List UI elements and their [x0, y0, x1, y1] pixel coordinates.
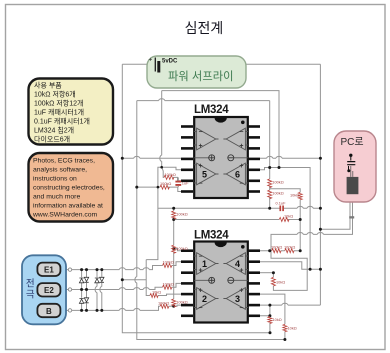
capacitor C2 0.1uF — [276, 200, 287, 211]
wire row2 to pin U1-L7 — [137, 187, 181, 191]
junction (269.7,208.3) — [268, 207, 271, 210]
wire hop 22 — [282, 303, 288, 305]
U2 amp 4 triangle — [226, 253, 245, 275]
resistor R13 100k R1a — [272, 249, 281, 253]
junction (173.7,248.6) — [172, 247, 175, 250]
wire hop 18 — [307, 206, 313, 208]
wire row1 to pin U1-L6 — [162, 167, 181, 181]
wire E2 line — [60, 283, 181, 289]
op-amp U1 LM324 upper — [181, 104, 260, 198]
junction (269.7,167.5) — [268, 166, 271, 169]
pin 6 — [181, 180, 193, 183]
wire power rail right — [260, 157, 320, 159]
svg-text:100kΩ: 100kΩ — [165, 172, 176, 177]
resistor R17 10k R7 — [268, 316, 272, 323]
svg-text:LM324: LM324 — [194, 230, 229, 242]
pin 11 — [248, 158, 260, 161]
wire B line — [60, 305, 181, 310]
wire y219.5 — [174, 219, 301, 221]
junction (122.3,158.3) — [121, 157, 124, 160]
diode D4 — [84, 298, 88, 303]
wire hop 11 — [135, 277, 137, 283]
wire right bus VR1 — [319, 64, 321, 305]
wire 2x100k pin U2-R1 — [260, 250, 300, 252]
wire hop 2 — [134, 268, 140, 270]
svg-text:극: 극 — [26, 290, 35, 301]
wire R5 rail and VR5 — [260, 168, 310, 270]
wire pin U1-L5 feed — [162, 167, 181, 170]
PC box — [334, 131, 376, 202]
svg-text:+: + — [199, 143, 203, 150]
wire 10k branch to x300.2 — [270, 189, 301, 251]
svg-text:E2: E2 — [44, 286, 54, 295]
pin 12 — [248, 169, 260, 172]
svg-text:4: 4 — [235, 259, 240, 269]
wire x146.2 to 10k pin U2-L5 — [146, 260, 181, 296]
pin 1 — [181, 249, 193, 252]
junction (320.4,208.3) — [319, 207, 322, 210]
U1 body — [194, 117, 248, 198]
pin 6 — [181, 304, 193, 307]
pin 10 — [248, 147, 260, 150]
svg-text:PC로: PC로 — [341, 137, 364, 148]
svg-text:−: − — [239, 181, 243, 188]
electrode E2 — [37, 283, 60, 296]
svg-text:5: 5 — [202, 170, 207, 180]
junction (269.7,250.7) — [268, 249, 271, 252]
wire battery plus to right bus — [246, 63, 320, 65]
pin 14 — [248, 190, 260, 193]
U2 notch — [215, 243, 227, 248]
svg-text:10kΩ: 10kΩ — [273, 317, 282, 322]
wire hop 19 — [297, 232, 303, 234]
wire hop 21 — [317, 232, 323, 234]
U1 amp top-right triangle — [226, 128, 245, 150]
junction (269.9,315.8) — [268, 314, 271, 317]
wire cap wire y208.3 — [158, 207, 321, 209]
power supply box — [147, 56, 246, 88]
wire hop 5 — [134, 288, 140, 290]
svg-text:100kΩ: 100kΩ — [176, 212, 187, 217]
pin 8 — [248, 125, 260, 128]
junction (320.4,158.3) — [319, 157, 322, 160]
pin 12 — [248, 293, 260, 296]
svg-text:100kΩ: 100kΩ — [163, 260, 174, 265]
junction (310.1,269.2) — [309, 268, 312, 271]
diode D1 — [79, 278, 83, 283]
electrodes box — [22, 255, 66, 324]
wire E1 line — [60, 262, 181, 270]
wire diode col 2 — [86, 270, 88, 311]
svg-text:−: − — [199, 305, 203, 312]
svg-text:www.SWHarden.com: www.SWHarden.com — [32, 212, 98, 219]
junction (300.2,250.7) — [299, 249, 302, 252]
wire hop 13 — [134, 156, 140, 158]
info box — [29, 153, 114, 222]
pin 8 — [248, 249, 260, 252]
wire hop 15 — [267, 156, 273, 158]
wire pin U2-R3 — [260, 272, 273, 274]
U2 amp 3 triangle — [226, 288, 245, 310]
svg-text:3: 3 — [235, 294, 240, 304]
U1 pin1 dot — [241, 121, 245, 125]
pin 11 — [248, 282, 260, 285]
connector marker on PC wires — [349, 216, 354, 218]
resistor R6 10k y219.5 — [279, 218, 289, 222]
wire battery minus to left bus — [122, 63, 153, 65]
pin 9 — [248, 260, 260, 263]
svg-text:10kΩ: 10kΩ — [288, 326, 297, 331]
resistor R2 100k row2 — [160, 185, 169, 189]
svg-text:−: − — [199, 181, 203, 188]
junction (97,310.4) — [96, 309, 99, 312]
svg-text:1: 1 — [202, 259, 207, 269]
resistor R11 100k E2 — [163, 285, 172, 289]
electrode E1 — [37, 263, 60, 276]
junction (173.7,219.5) — [172, 218, 175, 221]
wire hop 3 — [143, 268, 149, 270]
electrode B — [37, 304, 60, 317]
pin 7 — [181, 314, 193, 317]
svg-text:0.1uF: 0.1uF — [276, 200, 287, 205]
diode D3 — [79, 299, 83, 304]
pin 10 — [248, 271, 260, 274]
diode D6 — [100, 277, 104, 282]
svg-text:5vDC: 5vDC — [162, 59, 178, 65]
pin 14 — [248, 314, 260, 317]
U2 amp 2 triangle — [197, 288, 216, 310]
junction (161.7,167.2) — [160, 166, 163, 169]
wire diode col 3 — [96, 270, 98, 311]
wire hop 16 — [276, 156, 282, 158]
resistor R8 100k chain mid — [172, 245, 176, 253]
svg-text:10kΩ: 10kΩ — [276, 280, 285, 285]
junction (273.4,272.7) — [272, 271, 275, 274]
wire R6-R7 link — [269, 305, 271, 316]
junction (86.5,289.5) — [85, 288, 88, 291]
wire branch x157.9 — [146, 167, 162, 259]
junction (284.9,339.5) — [283, 338, 286, 341]
wire feedback rect B — [137, 100, 270, 102]
svg-text:100kΩ: 100kΩ — [163, 281, 174, 286]
svg-text:1uF 캐패시터1개: 1uF 캐패시터1개 — [34, 108, 84, 117]
U1 amp 6 triangle — [226, 163, 245, 185]
svg-text:100kΩ: 100kΩ — [271, 245, 282, 250]
resistor labels — [152, 172, 299, 331]
parts list box — [29, 79, 114, 145]
resistor R5 10k vertical x300.2 — [298, 192, 302, 200]
wire hop 4 — [119, 288, 125, 290]
pin 2 — [181, 260, 193, 263]
pin 2 — [181, 136, 193, 139]
svg-text:100kΩ 저항12개: 100kΩ 저항12개 — [34, 99, 83, 108]
wire feedback rect A — [162, 91, 279, 168]
svg-text:and much more: and much more — [33, 194, 80, 201]
wire hop 10 — [100, 287, 102, 293]
resistor R16 10k E-L5 — [150, 294, 158, 298]
U1 amp top-left triangle — [197, 128, 216, 150]
wire hop 12 — [160, 155, 162, 161]
pin 3 — [181, 271, 193, 274]
svg-text:100kΩ: 100kΩ — [272, 191, 283, 196]
resistor R12 100k B — [160, 304, 169, 308]
svg-text:LM324 칩2개: LM324 칩2개 — [34, 126, 74, 135]
svg-text:100kΩ: 100kΩ — [176, 246, 187, 251]
audio jack J1 — [347, 154, 359, 195]
svg-text:Photos, ECG traces,: Photos, ECG traces, — [33, 158, 95, 165]
svg-text:6: 6 — [235, 170, 240, 180]
wire pin U2-R6 — [260, 304, 320, 306]
resistor R9 100k chain lower — [172, 299, 176, 307]
junction (173.7,208.3) — [172, 207, 175, 210]
resistor R1 100k row1 — [164, 175, 174, 179]
svg-text:instructions on: instructions on — [33, 176, 77, 183]
pin 13 — [248, 304, 260, 307]
capacitor C1 1uF — [175, 177, 189, 187]
wire hop 6 — [143, 288, 149, 290]
svg-text:+: + — [239, 143, 243, 150]
resistor R18 10k R5chain — [283, 324, 287, 332]
junction (122.3,279.8) — [121, 278, 124, 281]
U1 notch — [215, 118, 227, 123]
resistor R10 100k E1 — [163, 264, 172, 268]
wire hop 1 — [119, 268, 125, 270]
op-amp U2 LM324 lower — [181, 230, 260, 323]
svg-text:100kΩ: 100kΩ — [272, 180, 283, 185]
wire VR2 — [269, 101, 271, 209]
junction (269.9,305.1) — [268, 304, 271, 307]
pin 7 — [181, 190, 193, 193]
svg-text:E1: E1 — [44, 266, 54, 275]
svg-text:10kΩ 저항6개: 10kΩ 저항6개 — [34, 90, 76, 99]
svg-text:100kΩ: 100kΩ — [176, 300, 187, 305]
svg-text:B: B — [46, 307, 52, 316]
wire left bus VL1 — [122, 64, 270, 333]
connector circles at electrode lines — [68, 268, 71, 312]
junction (81.6,310.4) — [80, 309, 83, 312]
pin 5 — [181, 169, 193, 172]
wire pin U2-R7 10k down — [260, 316, 270, 333]
wire hop 14 — [159, 99, 165, 101]
junction (300.2,219.5) — [299, 218, 302, 221]
svg-text:심전계: 심전계 — [185, 20, 224, 36]
wire hop 17 — [297, 206, 303, 208]
battery B1 5vDC — [155, 58, 159, 73]
wire VL2 — [137, 101, 285, 340]
resistor R15 10k vertical x273.4 — [271, 277, 275, 286]
U2 pin1 dot — [241, 245, 245, 249]
junction (97,269.6) — [96, 268, 99, 271]
svg-text:+: + — [149, 57, 153, 64]
wire hop 20 — [307, 232, 313, 234]
junction (320.4,229.2) — [319, 228, 322, 231]
pin 3 — [181, 147, 193, 150]
wire pc tip down — [320, 194, 350, 229]
U1 amp 5 triangle — [197, 163, 216, 185]
svg-text:−: − — [199, 129, 203, 136]
svg-text:전: 전 — [26, 279, 35, 290]
svg-text:10kΩ: 10kΩ — [152, 290, 161, 295]
pin 13 — [248, 180, 260, 183]
wire power rail left — [122, 157, 181, 159]
svg-text:10kΩ: 10kΩ — [290, 193, 299, 198]
pin 1 — [181, 125, 193, 128]
svg-text:information available at: information available at — [33, 203, 103, 210]
junction (173.7,306.3) — [172, 305, 175, 308]
wire interchip chain x173.7 — [173, 208, 175, 306]
diode D5 — [95, 278, 99, 283]
diode D2 — [84, 277, 88, 282]
resistor R14 100k R1b — [285, 249, 294, 253]
svg-text:100kΩ: 100kΩ — [284, 245, 295, 250]
svg-text:100kΩ: 100kΩ — [158, 301, 169, 306]
junction (279,167.5) — [278, 166, 281, 169]
junction (86.5,310.4) — [85, 309, 88, 312]
wire pc sleeve down — [271, 194, 353, 290]
svg-text:10kΩ: 10kΩ — [284, 214, 293, 219]
junction (101.8,269.6) — [100, 268, 103, 271]
U2 body — [194, 242, 248, 323]
U2 amp 1 triangle — [197, 253, 216, 275]
resistors — [150, 175, 302, 331]
wire pin U2-L1 feed — [174, 249, 181, 251]
pin 9 — [248, 136, 260, 139]
junction (86.5,269.6) — [85, 268, 88, 271]
junction (81.6,289.5) — [80, 288, 83, 291]
junction (320.4,269.2) — [319, 268, 322, 271]
wire pin U2-R5 chain — [260, 294, 285, 339]
wire hop 8 — [134, 309, 140, 311]
junction (101.8,310.4) — [100, 309, 103, 312]
svg-text:2: 2 — [202, 294, 207, 304]
wire hop 7 — [119, 309, 125, 311]
pin 5 — [181, 293, 193, 296]
wire VL3 — [161, 91, 163, 168]
pin 4 — [181, 282, 193, 285]
wire mid electrode y279.8 — [122, 279, 146, 281]
resistor R4 100k VR2 lower — [268, 190, 272, 199]
junction (270,332.8) — [269, 331, 272, 334]
resistor R7 100k chain upper — [172, 211, 176, 219]
junction (157.9,187.1) — [157, 186, 160, 189]
junction (81.6,269.6) — [80, 268, 83, 271]
resistor R3 100k VR2 upper — [268, 179, 272, 188]
svg-text:LM324: LM324 — [194, 104, 229, 116]
wire diode col 4 — [101, 270, 103, 311]
wire pin U2-R2 — [260, 262, 320, 270]
svg-text:다이오드6개: 다이오드6개 — [34, 135, 70, 144]
junction (136.8,187.1) — [135, 186, 138, 189]
svg-text:0.1uF 캐패시터1개: 0.1uF 캐패시터1개 — [34, 117, 90, 126]
svg-text:analysis software,: analysis software, — [33, 167, 87, 174]
svg-text:100kΩ: 100kΩ — [160, 181, 171, 186]
svg-text:−: − — [239, 129, 243, 136]
svg-text:1uF: 1uF — [182, 181, 189, 186]
svg-text:파워 서프라이: 파워 서프라이 — [168, 70, 234, 83]
svg-text:사용 부품: 사용 부품 — [34, 81, 62, 90]
wire diode col 1 — [81, 270, 83, 311]
wire hop 9 — [95, 287, 97, 293]
pin 4 — [181, 158, 193, 161]
svg-text:−: − — [239, 305, 243, 312]
svg-text:constructing electrodes,: constructing electrodes, — [33, 185, 105, 192]
